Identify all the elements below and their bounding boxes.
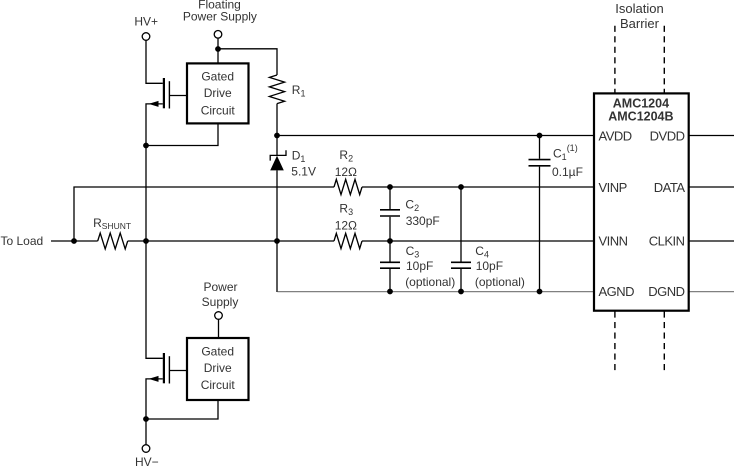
svg-text:Circuit: Circuit (201, 378, 236, 392)
svg-text:DATA: DATA (654, 180, 686, 195)
svg-text:To Load: To Load (1, 234, 44, 248)
svg-text:AMC1204: AMC1204 (613, 96, 669, 110)
svg-text:Drive: Drive (204, 86, 232, 100)
svg-text:Supply: Supply (202, 295, 239, 309)
svg-text:VINN: VINN (599, 233, 628, 248)
svg-text:VINP: VINP (599, 180, 627, 195)
svg-text:AMC1204B: AMC1204B (608, 110, 673, 124)
svg-text:12Ω: 12Ω (335, 165, 357, 179)
svg-text:Barrier: Barrier (620, 16, 660, 31)
svg-text:10pF: 10pF (476, 259, 503, 273)
svg-text:Gated: Gated (201, 70, 234, 84)
svg-text:HV−: HV− (135, 455, 159, 466)
svg-text:Gated: Gated (201, 345, 234, 359)
svg-text:5.1V: 5.1V (291, 165, 316, 179)
svg-text:10pF: 10pF (406, 259, 433, 273)
svg-text:(optional): (optional) (475, 275, 525, 289)
svg-text:DGND: DGND (648, 284, 684, 299)
svg-text:AGND: AGND (599, 284, 635, 299)
svg-text:CLKIN: CLKIN (649, 233, 685, 248)
svg-text:0.1µF: 0.1µF (552, 165, 583, 179)
svg-text:(optional): (optional) (405, 275, 455, 289)
svg-text:HV+: HV+ (134, 15, 158, 29)
svg-text:330pF: 330pF (406, 214, 440, 228)
svg-text:Drive: Drive (204, 361, 232, 375)
svg-text:Circuit: Circuit (201, 103, 236, 117)
svg-text:Power: Power (203, 280, 237, 294)
svg-text:Isolation: Isolation (615, 1, 663, 16)
svg-text:DVDD: DVDD (650, 128, 685, 143)
svg-text:Power Supply: Power Supply (183, 9, 257, 23)
svg-text:12Ω: 12Ω (335, 218, 357, 232)
svg-text:AVDD: AVDD (599, 128, 632, 143)
